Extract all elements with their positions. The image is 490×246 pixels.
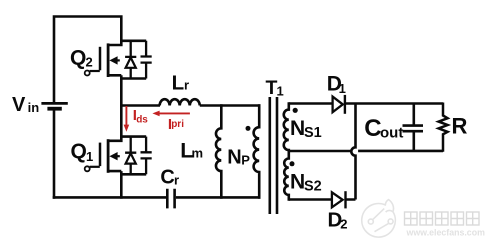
label Ids bbox=[133, 107, 149, 125]
capacitor Cout bbox=[403, 103, 424, 152]
Q2 top rail bbox=[120, 39, 146, 42]
label NP bbox=[227, 146, 250, 168]
inductor Lr bbox=[160, 99, 200, 105]
transistor Q1 (low-side MOSFET with body diode and capacitor) bbox=[85, 137, 152, 176]
arrow Ipri (red, primary current) bbox=[152, 111, 190, 117]
diode D1 bbox=[333, 97, 343, 113]
label R bbox=[452, 113, 468, 138]
Q2 body arrow stub bbox=[113, 59, 120, 61]
label Q2 bbox=[70, 47, 93, 70]
label D2 bbox=[328, 208, 348, 231]
dot NP polarity bbox=[246, 126, 251, 131]
label D1 bbox=[327, 73, 346, 97]
winding NS1 (secondary 1) bbox=[284, 102, 289, 152]
Q1 gate terminal circle bbox=[85, 166, 90, 171]
transistor Q2 (high-side MOSFET with body diode and capacitor) bbox=[85, 41, 152, 80]
transformer T1 core bars bbox=[270, 97, 277, 214]
wire NS1 top to D1 anode bbox=[289, 102, 334, 105]
svg-text:m: m bbox=[192, 146, 204, 161]
Q1 gate bar bbox=[99, 143, 102, 167]
Q2 drain stub bbox=[108, 41, 122, 45]
svg-text:pri: pri bbox=[171, 119, 184, 130]
label Cr bbox=[160, 167, 179, 189]
svg-text:1: 1 bbox=[339, 81, 346, 96]
label Lm bbox=[180, 139, 203, 163]
Q2 channel bar bbox=[107, 43, 110, 77]
battery Vin short plate bbox=[47, 107, 61, 111]
label Vin bbox=[12, 94, 39, 116]
wire D2 cathode riser with crossover hop bbox=[346, 104, 356, 200]
Q1 arrowhead bbox=[109, 152, 117, 160]
watermark text 电子发烧友 (CJK glyph blocks) bbox=[405, 212, 480, 225]
label Lr bbox=[172, 71, 189, 94]
label Ipri bbox=[168, 116, 184, 133]
Q1 gate lead bbox=[90, 166, 100, 168]
wire switch node to Lr bbox=[120, 104, 160, 107]
resistor R bbox=[439, 103, 448, 152]
svg-text:V: V bbox=[12, 94, 26, 116]
svg-text:Q: Q bbox=[71, 140, 87, 163]
dot NS1 polarity bbox=[293, 108, 298, 113]
Q1 source stub bbox=[108, 171, 122, 175]
Q1 drain stub bbox=[108, 137, 122, 141]
label Q1 bbox=[71, 140, 94, 164]
Q2 arrowhead bbox=[109, 56, 117, 64]
wire top-left loop: Vin+ to Q2 drain bbox=[54, 17, 121, 103]
svg-text:in: in bbox=[28, 100, 40, 115]
svg-text:S1: S1 bbox=[304, 125, 322, 141]
winding NS2 (secondary 2) bbox=[284, 151, 289, 201]
svg-text:r: r bbox=[174, 173, 179, 188]
svg-text:Q: Q bbox=[70, 47, 86, 70]
Q1 body arrow stub bbox=[113, 155, 120, 157]
svg-text:N: N bbox=[227, 146, 241, 168]
winding NP (transformer primary) bbox=[254, 104, 260, 198]
wire Vin- down to bottom rail bbox=[53, 110, 56, 198]
svg-text:1: 1 bbox=[86, 149, 93, 164]
Q2 gate lead bbox=[90, 70, 100, 72]
svg-text:S2: S2 bbox=[304, 178, 322, 194]
Q1 body diode bbox=[125, 137, 136, 175]
watermark url www.elecfans.com bbox=[406, 228, 486, 238]
inductor Lm bbox=[216, 104, 221, 198]
svg-text:C: C bbox=[160, 167, 174, 189]
svg-text:R: R bbox=[452, 113, 468, 138]
Q1 top rail bbox=[120, 135, 146, 138]
svg-text:N: N bbox=[290, 171, 305, 194]
svg-text:r: r bbox=[184, 77, 189, 92]
capacitor Cr bbox=[167, 189, 174, 209]
wire switch node vertical (Q2 source to Q1 drain) bbox=[120, 78, 123, 138]
arrow Ids (red, drain current) bbox=[124, 106, 130, 132]
label NS2 bbox=[290, 171, 322, 195]
wire bottom rail right of Cr bbox=[176, 196, 261, 199]
label T1 bbox=[266, 77, 284, 99]
Q2 body diode bbox=[125, 41, 136, 79]
svg-text:2: 2 bbox=[340, 217, 347, 232]
Q1 channel bar bbox=[107, 139, 110, 173]
svg-text:ds: ds bbox=[136, 115, 148, 126]
Q2 gate terminal circle bbox=[85, 71, 90, 76]
wire output top rail bbox=[346, 102, 443, 105]
label NS1 bbox=[290, 117, 322, 141]
label Cout bbox=[364, 115, 403, 142]
svg-text:P: P bbox=[241, 153, 250, 168]
Q1 bottom rail bbox=[120, 173, 146, 176]
Q2 bottom rail bbox=[120, 77, 146, 80]
wire Lr to NP top bbox=[200, 104, 261, 107]
svg-text:www.elecfans.com: www.elecfans.com bbox=[406, 228, 486, 238]
wire bottom rail left of Cr bbox=[53, 196, 166, 199]
diode D2 bbox=[332, 192, 343, 207]
svg-text:out: out bbox=[380, 125, 403, 142]
svg-text:N: N bbox=[290, 117, 305, 140]
svg-text:1: 1 bbox=[277, 84, 284, 99]
Q1 parallel capacitor bbox=[141, 137, 152, 175]
dot NS2 polarity bbox=[290, 161, 295, 166]
wire NS2 bottom to D2 anode bbox=[289, 198, 332, 201]
wire center tap to return rail (left of hop) bbox=[289, 150, 351, 153]
wire Q1 source to bottom rail bbox=[120, 173, 123, 198]
battery Vin long plate bbox=[41, 102, 67, 105]
Q2 parallel capacitor bbox=[141, 41, 152, 79]
Q2 source stub bbox=[108, 75, 122, 79]
watermark logo circle bbox=[362, 200, 396, 238]
svg-text:L: L bbox=[172, 71, 185, 94]
Q2 gate bar bbox=[99, 47, 102, 71]
svg-text:2: 2 bbox=[86, 55, 93, 70]
wire return rail (right of hop) bbox=[358, 150, 443, 153]
